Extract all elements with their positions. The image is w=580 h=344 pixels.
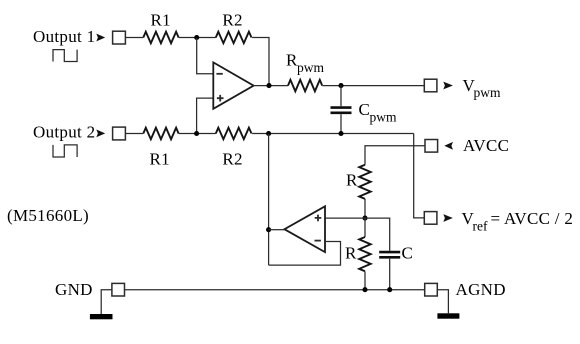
svg-text:pwm: pwm bbox=[370, 109, 397, 124]
wire U1 output bbox=[254, 85, 288, 87]
terminal pad AGND bbox=[425, 283, 438, 296]
svg-text:ref: ref bbox=[473, 218, 488, 233]
svg-text:R1: R1 bbox=[150, 149, 170, 168]
node Cpwm-bottom junction dot bbox=[338, 131, 343, 136]
node A junction dot bbox=[194, 35, 199, 40]
resistor R1 (row 1) bbox=[143, 32, 178, 44]
svg-text:R1: R1 bbox=[151, 10, 171, 29]
wire node A down to inverting input bbox=[197, 38, 214, 74]
wire upper R to node D bbox=[364, 199, 366, 218]
wire Vref rail down to Vref pad bbox=[414, 134, 425, 218]
svg-text:AGND: AGND bbox=[456, 280, 506, 299]
op-amp U2 (buffer, pointing left) bbox=[284, 206, 325, 252]
wire pad2 to R1 bbox=[125, 133, 143, 135]
wire AVCC pad to divider bbox=[365, 146, 425, 165]
U2 plus sign bbox=[315, 215, 322, 222]
terminal pad Output 1 bbox=[113, 31, 126, 44]
wire R1 to node B bbox=[179, 133, 216, 135]
node lower-R to rail junction dot bbox=[362, 287, 367, 292]
arrow into Output 1 pad bbox=[96, 34, 105, 42]
svg-text:R: R bbox=[345, 244, 357, 263]
node D junction dot bbox=[362, 216, 367, 221]
node C to rail junction dot bbox=[387, 287, 392, 292]
label Cpwm bbox=[359, 100, 397, 124]
resistor R (lower divider) bbox=[364, 218, 366, 237]
node C junction dot bbox=[266, 131, 271, 136]
wire analog ground rail bbox=[125, 289, 425, 291]
waveform symbol Output 1 (high pulse) bbox=[53, 50, 77, 62]
resistor R1 (row 2) bbox=[143, 128, 178, 140]
svg-text:Output 1: Output 1 bbox=[33, 27, 95, 46]
wire Rpwm to Vpwm pad bbox=[322, 85, 424, 87]
label Rpwm bbox=[286, 50, 324, 74]
arrow into Output 2 pad bbox=[96, 130, 105, 138]
wire AGND pad to ground symbol bbox=[437, 290, 448, 314]
U2 minus sign bbox=[315, 240, 321, 242]
wire R2 to Vref rail bbox=[252, 133, 414, 135]
arrow out of Vpwm pad bbox=[443, 82, 453, 90]
node U1out junction dot bbox=[266, 83, 271, 88]
label Vpwm bbox=[463, 76, 501, 100]
svg-text:R2: R2 bbox=[222, 149, 242, 168]
svg-text:(M51660L): (M51660L) bbox=[7, 206, 89, 225]
terminal pad Output 2 bbox=[113, 127, 126, 140]
svg-text:Output 2: Output 2 bbox=[33, 123, 95, 142]
resistor R2 (row 1, feedback) bbox=[216, 32, 252, 44]
svg-text:pwm: pwm bbox=[474, 85, 501, 100]
terminal pad Vpwm bbox=[424, 79, 437, 92]
capacitor Cpwm bbox=[331, 86, 352, 134]
node B junction dot bbox=[194, 131, 199, 136]
wire R1 to node A bbox=[179, 37, 216, 39]
U1 minus sign bbox=[216, 73, 222, 75]
wire U2 output to node bbox=[269, 229, 285, 231]
svg-text:GND: GND bbox=[55, 280, 93, 299]
svg-text:pwm: pwm bbox=[297, 60, 324, 75]
ground symbol GND bbox=[90, 314, 113, 319]
arrow out of Vref pad bbox=[443, 214, 453, 222]
wire GND pad to ground symbol bbox=[101, 290, 112, 314]
wire noninverting input to node B bbox=[197, 98, 214, 133]
terminal pad GND bbox=[112, 283, 125, 296]
svg-text:= AVCC / 2: = AVCC / 2 bbox=[491, 209, 574, 228]
U1 plus sign bbox=[217, 95, 224, 102]
resistor R (upper divider) bbox=[359, 165, 371, 199]
node buffer-out junction dot bbox=[266, 227, 271, 232]
terminal pad AVCC bbox=[425, 140, 438, 153]
svg-text:C: C bbox=[359, 100, 371, 119]
node Cpwm-top junction dot bbox=[338, 83, 343, 88]
wire R2 to feedback corner bbox=[252, 38, 269, 86]
svg-text:AVCC: AVCC bbox=[463, 136, 509, 155]
terminal pad Vref bbox=[424, 212, 437, 225]
wire node D to buffer + input bbox=[325, 217, 365, 219]
wire pad1 to R1 bbox=[125, 37, 143, 39]
svg-text:R2: R2 bbox=[222, 10, 242, 29]
wire node D to capacitor C bbox=[365, 218, 390, 251]
svg-text:R: R bbox=[346, 170, 358, 189]
wire U2 feedback (minus to output) bbox=[269, 242, 341, 266]
waveform symbol Output 2 (low pulse) bbox=[53, 145, 77, 157]
op-amp U1 bbox=[213, 62, 253, 108]
ground symbol AGND bbox=[437, 313, 459, 318]
arrow into AVCC pad bbox=[444, 142, 453, 150]
capacitor C bbox=[379, 252, 400, 290]
resistor R2 (row 2) bbox=[216, 128, 252, 140]
label Vref = AVCC / 2 bbox=[462, 209, 574, 233]
svg-text:C: C bbox=[402, 244, 414, 263]
resistor Rpwm bbox=[288, 80, 322, 92]
wire node C down to buffer output bbox=[268, 134, 270, 266]
